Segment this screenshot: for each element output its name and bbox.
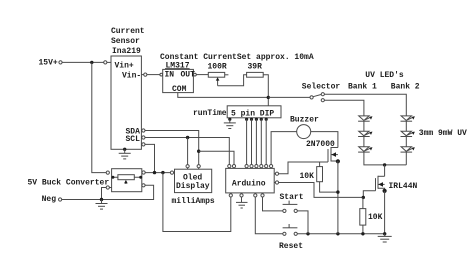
node Neg terminal bbox=[42, 195, 62, 204]
pin LM317 IN circle bbox=[160, 73, 163, 76]
IC U1 Ina219 box bbox=[111, 56, 141, 149]
svg-text:Arduino: Arduino bbox=[232, 179, 266, 188]
wire 39R to junction bbox=[263, 75, 268, 98]
wire buzzer to 2N7000 drain bbox=[311, 132, 338, 148]
wire 2N7000 source down to rail bbox=[337, 161, 339, 234]
wire bank2 bottom bbox=[405, 152, 407, 165]
junction DIP pin dots bbox=[245, 118, 248, 121]
wire DIP to arduino x5 bbox=[247, 119, 267, 164]
junction SDA branch bbox=[197, 150, 200, 153]
LED D5 bank2 bbox=[401, 131, 415, 136]
junction rail-10K bbox=[361, 232, 364, 235]
display OLED box bbox=[172, 169, 215, 206]
transistor Q2 2N7000 bbox=[306, 140, 340, 164]
pin LM317 OUT circle bbox=[194, 73, 197, 76]
wire junction to selector bbox=[268, 96, 310, 98]
ground buck bbox=[96, 200, 108, 210]
svg-text:COM: COM bbox=[172, 85, 187, 94]
junction gate node bbox=[362, 196, 365, 199]
LED D6 bank2 bbox=[401, 147, 415, 152]
resistor R3 10K gate pulldown bbox=[360, 197, 383, 233]
junction rail-reset bbox=[306, 232, 309, 235]
wire IRL44N gate lead bbox=[363, 191, 375, 198]
wire bank1 bottom bbox=[364, 152, 406, 165]
ground Arduino bbox=[236, 197, 248, 208]
switch Start pushbutton bbox=[280, 193, 304, 212]
junction 5V-arduino feed bbox=[161, 171, 164, 174]
wire start line bbox=[263, 197, 283, 211]
junction 15V node bbox=[90, 61, 93, 64]
wire Vin- to LM317 IN bbox=[147, 74, 160, 76]
junction rail-2n7000 source bbox=[336, 232, 339, 235]
wire selector upper throw to Bank 2 bbox=[324, 94, 406, 116]
ground Ina219 bbox=[119, 148, 131, 159]
svg-text:10K: 10K bbox=[368, 213, 383, 222]
svg-text:milliAmps: milliAmps bbox=[172, 197, 215, 206]
junction Neg/ground bbox=[100, 198, 103, 201]
LED D2 bank1 bbox=[358, 131, 372, 136]
svg-text:Start: Start bbox=[280, 193, 304, 202]
wire SDA net bbox=[145, 131, 199, 165]
node 15V+ terminal bbox=[39, 58, 63, 67]
switch DIP 5 pin box bbox=[227, 106, 281, 119]
buzzer BZ1 bbox=[290, 115, 319, 138]
junction SCL branch bbox=[186, 136, 189, 139]
transistor Q1 IRL44N bbox=[376, 176, 418, 193]
wire selector lower throw to Bank 1 bbox=[324, 100, 364, 116]
MCU Arduino box bbox=[226, 168, 275, 193]
svg-text:Bank 1: Bank 1 bbox=[348, 83, 377, 92]
svg-text:Current: Current bbox=[111, 27, 145, 36]
wire IRL44N source down bbox=[384, 191, 386, 234]
label Current Sensor Ina219 bbox=[111, 27, 145, 56]
svg-text:SCL: SCL bbox=[126, 135, 141, 144]
wire reset line bbox=[255, 197, 282, 234]
potentiometer 100R bbox=[208, 63, 229, 86]
regulator U2 LM317 bbox=[163, 62, 195, 94]
wire arduino pin to buzzer bbox=[271, 132, 297, 165]
pin OLED top pins bbox=[186, 165, 200, 170]
svg-text:Display: Display bbox=[176, 182, 210, 191]
junction rail end bbox=[383, 232, 386, 235]
wire 15V+ to Vin+ bbox=[62, 61, 104, 63]
wire Arduino D-pin to gate node bbox=[279, 183, 364, 198]
svg-text:5V Buck Converter: 5V Buck Converter bbox=[28, 179, 110, 188]
wire SCL to oled bbox=[187, 138, 189, 165]
pin Vin+ circle bbox=[104, 61, 107, 64]
regulator buck converter box bbox=[106, 169, 145, 192]
wire bbox=[363, 137, 365, 147]
svg-text:39R: 39R bbox=[248, 63, 263, 72]
wire bbox=[363, 121, 365, 131]
ground DIP bbox=[224, 119, 236, 128]
svg-text:Vin+: Vin+ bbox=[115, 62, 134, 71]
wire start to rail bbox=[297, 211, 308, 234]
wire Neg line bbox=[62, 185, 154, 199]
LED D4 bank2 bbox=[401, 116, 415, 121]
svg-text:Buzzer: Buzzer bbox=[290, 115, 319, 124]
pin Vin- bbox=[141, 73, 147, 76]
wire SCL net bbox=[145, 138, 229, 165]
resistor 39R bbox=[247, 63, 264, 78]
wire buck low-side bbox=[102, 188, 107, 200]
LED D1 bank1 bbox=[358, 116, 372, 121]
pin Arduino bottom pins bbox=[229, 193, 264, 197]
wire bbox=[405, 121, 407, 131]
pin SDA bbox=[126, 128, 145, 137]
pin Arduino top pins bbox=[228, 165, 273, 169]
wire arduino pin to 2N7000 gate bbox=[279, 162, 329, 174]
svg-text:3mm 9mW UV: 3mm 9mW UV bbox=[419, 129, 467, 138]
wire 100R wiper to 39R bbox=[218, 75, 247, 86]
wire OUT to 100R bbox=[196, 74, 208, 76]
switch Reset pushbutton bbox=[279, 224, 303, 251]
switch Selector SPDT bbox=[302, 83, 341, 102]
wire 15V to buck input bbox=[92, 62, 106, 172]
pin Ina219 Vs bbox=[141, 143, 145, 146]
svg-text:Reset: Reset bbox=[279, 242, 303, 251]
wire Vs to 5V rail bbox=[145, 144, 155, 172]
resistor R2 10K gate pulldown 2N7000 bbox=[300, 162, 340, 194]
svg-text:Neg: Neg bbox=[42, 195, 57, 204]
pin OLED vcc bbox=[170, 171, 173, 174]
wire bbox=[405, 137, 407, 147]
svg-text:UV LED's: UV LED's bbox=[365, 71, 404, 80]
wire SDA to arduino bbox=[199, 151, 234, 164]
pin Arduino right pins bbox=[274, 172, 278, 184]
svg-text:Selector: Selector bbox=[302, 83, 341, 92]
wire Vin+ stub bbox=[107, 61, 111, 63]
junction DIP ground pin bbox=[228, 118, 231, 121]
svg-text:runTime: runTime bbox=[193, 109, 227, 118]
junction COM/39R node bbox=[267, 96, 270, 99]
svg-text:Oled: Oled bbox=[183, 174, 202, 183]
svg-text:Bank 2: Bank 2 bbox=[391, 83, 420, 92]
svg-text:5 pin DIP: 5 pin DIP bbox=[231, 109, 274, 118]
wire LM317 COM feedback bbox=[178, 93, 268, 98]
svg-text:Vin-: Vin- bbox=[122, 72, 141, 81]
svg-text:IN: IN bbox=[165, 71, 175, 80]
LED D3 bank1 bbox=[358, 147, 372, 152]
svg-text:Ina219: Ina219 bbox=[112, 47, 141, 56]
wire ground rail bbox=[297, 233, 385, 235]
svg-text:100R: 100R bbox=[208, 63, 227, 72]
pin SCL bbox=[126, 135, 145, 144]
svg-text:OUT: OUT bbox=[181, 71, 196, 80]
wire junction to DIP box bbox=[267, 99, 269, 106]
svg-text:Sensor: Sensor bbox=[111, 37, 140, 46]
wire 5V rail bbox=[145, 172, 170, 174]
junction LED common bbox=[383, 163, 386, 166]
junction 5V-Vs bbox=[153, 171, 156, 174]
ground main bbox=[378, 234, 392, 242]
svg-text:IRL44N: IRL44N bbox=[389, 182, 418, 191]
svg-text:10K: 10K bbox=[300, 172, 315, 181]
wire LED common to drain bbox=[384, 165, 386, 176]
wire 5V loop to arduino bbox=[163, 173, 231, 232]
svg-text:15V+: 15V+ bbox=[39, 58, 58, 67]
